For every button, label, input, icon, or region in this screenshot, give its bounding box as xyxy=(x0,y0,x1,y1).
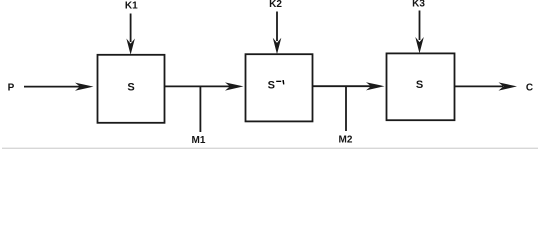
svg-text:M1: M1 xyxy=(192,135,206,146)
block U3 (S) xyxy=(387,53,455,120)
label S^-1 (U2) : superscript minus xyxy=(276,81,281,82)
block U2 (S inverse) xyxy=(246,54,313,121)
wire K3 arrow into U3 xyxy=(415,11,424,54)
wire K2 arrow into U2 xyxy=(273,12,282,55)
svg-text:C: C xyxy=(526,82,533,93)
label S^-1 (U2) : superscript one xyxy=(282,80,284,85)
scan artifact bottom streak xyxy=(2,148,538,149)
svg-text:M2: M2 xyxy=(339,134,353,145)
wire K1 arrow into U1 xyxy=(126,14,134,55)
svg-text:S: S xyxy=(127,81,134,93)
svg-text:S: S xyxy=(416,79,423,91)
svg-text:P: P xyxy=(8,83,15,94)
svg-text:K2: K2 xyxy=(269,0,282,10)
node M1 tap wire xyxy=(199,87,201,132)
node M2 tap wire xyxy=(345,87,347,131)
svg-text:K3: K3 xyxy=(412,0,425,10)
svg-text:K1: K1 xyxy=(125,1,138,12)
svg-text:S: S xyxy=(268,80,275,92)
wire P input arrow xyxy=(24,83,94,91)
block U1 (S) xyxy=(98,55,165,123)
wire U2 to U3 arrow xyxy=(313,82,385,90)
wire C output arrow xyxy=(455,82,517,90)
wire U1 to U2 arrow xyxy=(165,82,244,90)
